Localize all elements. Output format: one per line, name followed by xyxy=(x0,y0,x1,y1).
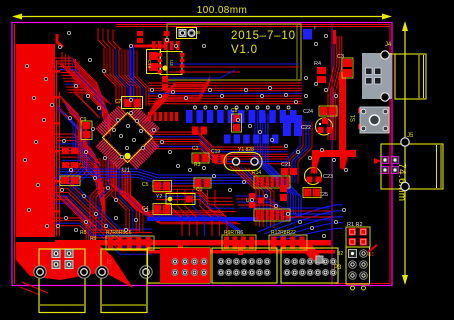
svg-text:C21: C21 xyxy=(281,162,291,168)
resistor pads left column xyxy=(60,148,80,186)
via cluster mcu xyxy=(112,111,144,158)
svg-text:R14: R14 xyxy=(252,170,261,176)
wire web right area mixed xyxy=(286,120,312,184)
capacitor C2 xyxy=(192,127,207,153)
resistor row left labels xyxy=(80,230,132,242)
wire web right mid horiz xyxy=(235,196,334,220)
dimension 74.6mm right xyxy=(396,21,408,285)
wire thick blue bar xyxy=(147,217,259,221)
resistor pads below U3 xyxy=(162,76,168,90)
connector teeth row lower xyxy=(148,112,178,121)
wire web blue arcs bottom-right xyxy=(258,205,343,240)
wire web left upper dense xyxy=(58,62,100,118)
capacitor C21 xyxy=(281,162,297,175)
wire web horizontal mid xyxy=(150,132,290,164)
dimension 100.08mm top xyxy=(12,5,392,20)
wire thick red top mid xyxy=(129,45,164,48)
wire right edge ring xyxy=(389,24,391,284)
capacitor C25 xyxy=(303,188,328,199)
wire bottom edge ring xyxy=(335,283,390,285)
wire web mcu right to sd xyxy=(144,76,210,122)
connector teeth row top xyxy=(152,41,180,50)
button S1 xyxy=(351,107,389,133)
sd slot J1 outline xyxy=(167,24,301,80)
crystal Y1 xyxy=(224,147,262,171)
svg-text:100.08mm: 100.08mm xyxy=(197,5,247,16)
svg-text:J5: J5 xyxy=(407,133,414,139)
capacitor C8 xyxy=(231,108,242,132)
svg-text:R7R6R5C6: R7R6R5C6 xyxy=(106,230,132,236)
resistor row mid pads xyxy=(222,235,256,250)
copper pour left xyxy=(16,44,55,237)
wire sd inner traces xyxy=(169,64,299,78)
svg-text:C8: C8 xyxy=(231,108,238,114)
svg-text:C5: C5 xyxy=(142,182,149,188)
wire web blue horizontals center xyxy=(58,169,252,183)
wire web right-bottom reds xyxy=(230,166,274,228)
svg-text:R8: R8 xyxy=(80,230,87,236)
connector J5 xyxy=(374,133,443,191)
capacitor C7 xyxy=(115,97,143,109)
resistor row left pads xyxy=(106,236,154,250)
pad grid 2x2 bottom-left xyxy=(52,250,73,269)
svg-text:P3: P3 xyxy=(334,265,342,271)
wire top edge ring xyxy=(116,24,390,26)
resistor R3 xyxy=(192,153,209,168)
wire web mcu bottom verticals xyxy=(112,172,143,232)
row blue squares mid xyxy=(224,135,279,144)
via cluster left pour xyxy=(23,64,53,227)
svg-text:U1: U1 xyxy=(122,167,131,174)
connector J6 right xyxy=(281,248,338,283)
wire web blue bottom-left drop xyxy=(150,216,242,234)
resistor R4 xyxy=(314,61,326,83)
wire thick blue vertical xyxy=(130,45,134,101)
wire web right verticals xyxy=(328,36,342,140)
connector B3 two-hole xyxy=(177,28,197,39)
wire thick red T right xyxy=(312,30,356,170)
wire web blue left diagonals xyxy=(57,108,84,161)
svg-text:2015–7–10: 2015–7–10 xyxy=(231,30,296,42)
wire streaks below pour xyxy=(20,282,48,295)
svg-text:S1: S1 xyxy=(351,114,357,122)
resistor pads small top xyxy=(164,31,170,43)
capacitor pads pair far left bottom xyxy=(280,185,287,201)
wire web blue drop sd xyxy=(255,110,301,218)
svg-text:R9: R9 xyxy=(90,236,97,242)
copper pour bottom-left xyxy=(16,242,133,288)
header P3 xyxy=(334,245,377,290)
svg-text:C2: C2 xyxy=(192,146,199,152)
capacitor C16 xyxy=(147,50,161,74)
connector P2 box xyxy=(101,249,147,313)
wire web left fan lower xyxy=(55,134,104,215)
resistors R1 R2 xyxy=(346,222,370,247)
capacitor C1 xyxy=(194,178,211,193)
capacitor C9 xyxy=(80,117,92,140)
wire web center lower horizontals xyxy=(152,186,236,212)
svg-text:U3: U3 xyxy=(169,60,174,66)
svg-text:C3: C3 xyxy=(337,54,344,60)
resistor row right pads xyxy=(269,235,307,250)
svg-text:B1: B1 xyxy=(368,252,374,258)
svg-text:J4: J4 xyxy=(385,42,392,48)
capacitor C3 xyxy=(337,54,353,78)
wire web mcu bottom fan xyxy=(108,160,240,224)
svg-text:B: B xyxy=(197,30,200,35)
wire thick red bottom bus2 xyxy=(147,250,335,254)
svg-text:J2: J2 xyxy=(105,258,111,265)
capacitor C19 xyxy=(211,149,227,163)
svg-text:R4: R4 xyxy=(314,61,321,67)
transistor C22 xyxy=(301,118,333,135)
wire web bottom mid risers xyxy=(170,190,227,236)
svg-text:C19: C19 xyxy=(211,149,220,155)
wire thick red bottom bus1 xyxy=(55,240,331,246)
capacitor C4 xyxy=(142,204,172,215)
wire web mcu top riser xyxy=(104,48,149,106)
wire web left-bottom diagonal xyxy=(55,178,152,254)
resistor network R14 xyxy=(252,170,290,188)
wire web mcu to resistor row fan xyxy=(90,158,115,231)
svg-text:V1.0: V1.0 xyxy=(231,44,258,56)
svg-text:C16: C16 xyxy=(147,60,152,69)
inner keepout line xyxy=(331,23,333,285)
resistor network row2 xyxy=(254,209,290,221)
wire web left lower drop xyxy=(56,194,96,244)
wire web under sd horizontals xyxy=(148,83,302,104)
capacitor C24 xyxy=(303,106,337,116)
svg-text:Y2: Y2 xyxy=(156,194,162,200)
svg-text:C22: C22 xyxy=(301,125,311,131)
wire web left fan upper xyxy=(55,58,110,137)
transistor C23 xyxy=(305,168,334,185)
capacitors blue pair xyxy=(283,115,302,136)
connector J3 mid xyxy=(212,248,277,283)
wire left edge ring xyxy=(14,24,16,284)
board outline xyxy=(12,23,392,286)
wire web left low extra xyxy=(55,218,140,238)
transistor U4 xyxy=(246,193,264,208)
connector J2 red block xyxy=(105,248,210,283)
capacitor blue C xyxy=(303,29,312,40)
wire red drops to connector xyxy=(178,245,322,262)
connector J4 xyxy=(362,42,426,101)
crystal Y2 xyxy=(156,194,195,205)
svg-text:C23: C23 xyxy=(323,174,333,180)
svg-text:C7: C7 xyxy=(115,99,122,105)
wire red elbow top-left xyxy=(57,34,63,47)
wire red rail along pour xyxy=(55,60,60,236)
ic U3 xyxy=(158,52,185,75)
via field xyxy=(56,31,347,237)
capacitor C5 xyxy=(142,181,172,192)
wire web mcu left inner xyxy=(60,96,101,166)
connector P1 box xyxy=(39,249,85,313)
wire web top-left diagonals xyxy=(62,52,111,105)
resistor pads top small xyxy=(137,31,143,36)
wire web left mid diagonals xyxy=(57,106,89,189)
mcu U1 xyxy=(96,106,159,169)
svg-text:B2: B2 xyxy=(337,251,343,257)
wire web top strip drops xyxy=(98,28,121,50)
svg-text:C24: C24 xyxy=(303,109,313,115)
connector blue pin row xyxy=(186,106,297,123)
mounting holes bottom-left xyxy=(34,266,152,278)
